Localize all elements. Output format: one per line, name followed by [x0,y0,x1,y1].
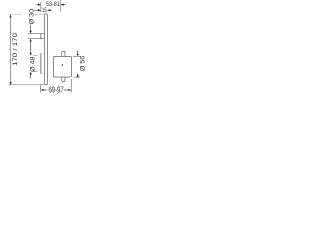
svg-text:Ø 56: Ø 56 [80,55,86,71]
dim D56 ext line bottom [73,76,80,78]
dim 15 left arrow [34,9,38,11]
dim 69-97 ext line right [70,79,72,93]
svg-text:Ø 48: Ø 48 [30,56,36,72]
spindle bottom edge [27,38,44,40]
svg-text:170 / 170: 170 / 170 [13,32,19,66]
dim D30 top arrow (down) [30,25,32,31]
dim 170/74 line [10,15,12,85]
dim 15 right arrow [47,9,50,11]
dim D56 bottom arrow (up) [77,73,79,77]
dim D56 top arrow (down) [77,51,79,54]
dim 53-81 right arrow [61,4,64,6]
dim 53-81 left arrow [36,4,38,6]
dim 170/74 ext line bottom [8,84,44,86]
svg-text:69-97: 69-97 [48,86,63,95]
svg-text:15: 15 [42,7,47,14]
dim 69-97 ext line left [40,85,42,93]
knob bottom cap [41,73,45,75]
dim D48 bottom arrow (up) [30,72,32,75]
svg-text:53-81: 53-81 [46,1,60,8]
dim D30 bottom arrow (up) + tail down to D48 arrow [29,39,31,42]
front view escutcheon box [53,56,71,77]
dim 170/74 top arrow (up, inside) [9,15,11,18]
dim 53-81 ext line left [40,2,42,13]
wall plate side-view outline [45,14,48,85]
svg-text:Ø 30: Ø 30 [29,8,35,24]
dim 170/74 ext line top [8,14,22,16]
dim D56 top tick [76,50,80,52]
dim 53-81 ext line right [60,0,62,12]
dim D56 ext line top [73,55,81,57]
dim 69-97 right arrow (points right) [64,89,68,91]
knob top cap [41,52,45,54]
dim D48 top arrow (down) [30,53,32,56]
dim 170/74 bottom arrow (down, inside) [9,82,11,85]
dim D48 ext line top [33,55,37,57]
spindle front face [40,34,42,39]
spindle top edge [27,33,44,35]
handle knob front face [40,53,42,74]
center dot [62,64,64,66]
dim D48 ext line bottom [33,71,37,73]
front view top stub [62,51,65,56]
dim 69-97 left arrow (points left) [41,89,44,91]
front view bottom stub [62,77,65,81]
